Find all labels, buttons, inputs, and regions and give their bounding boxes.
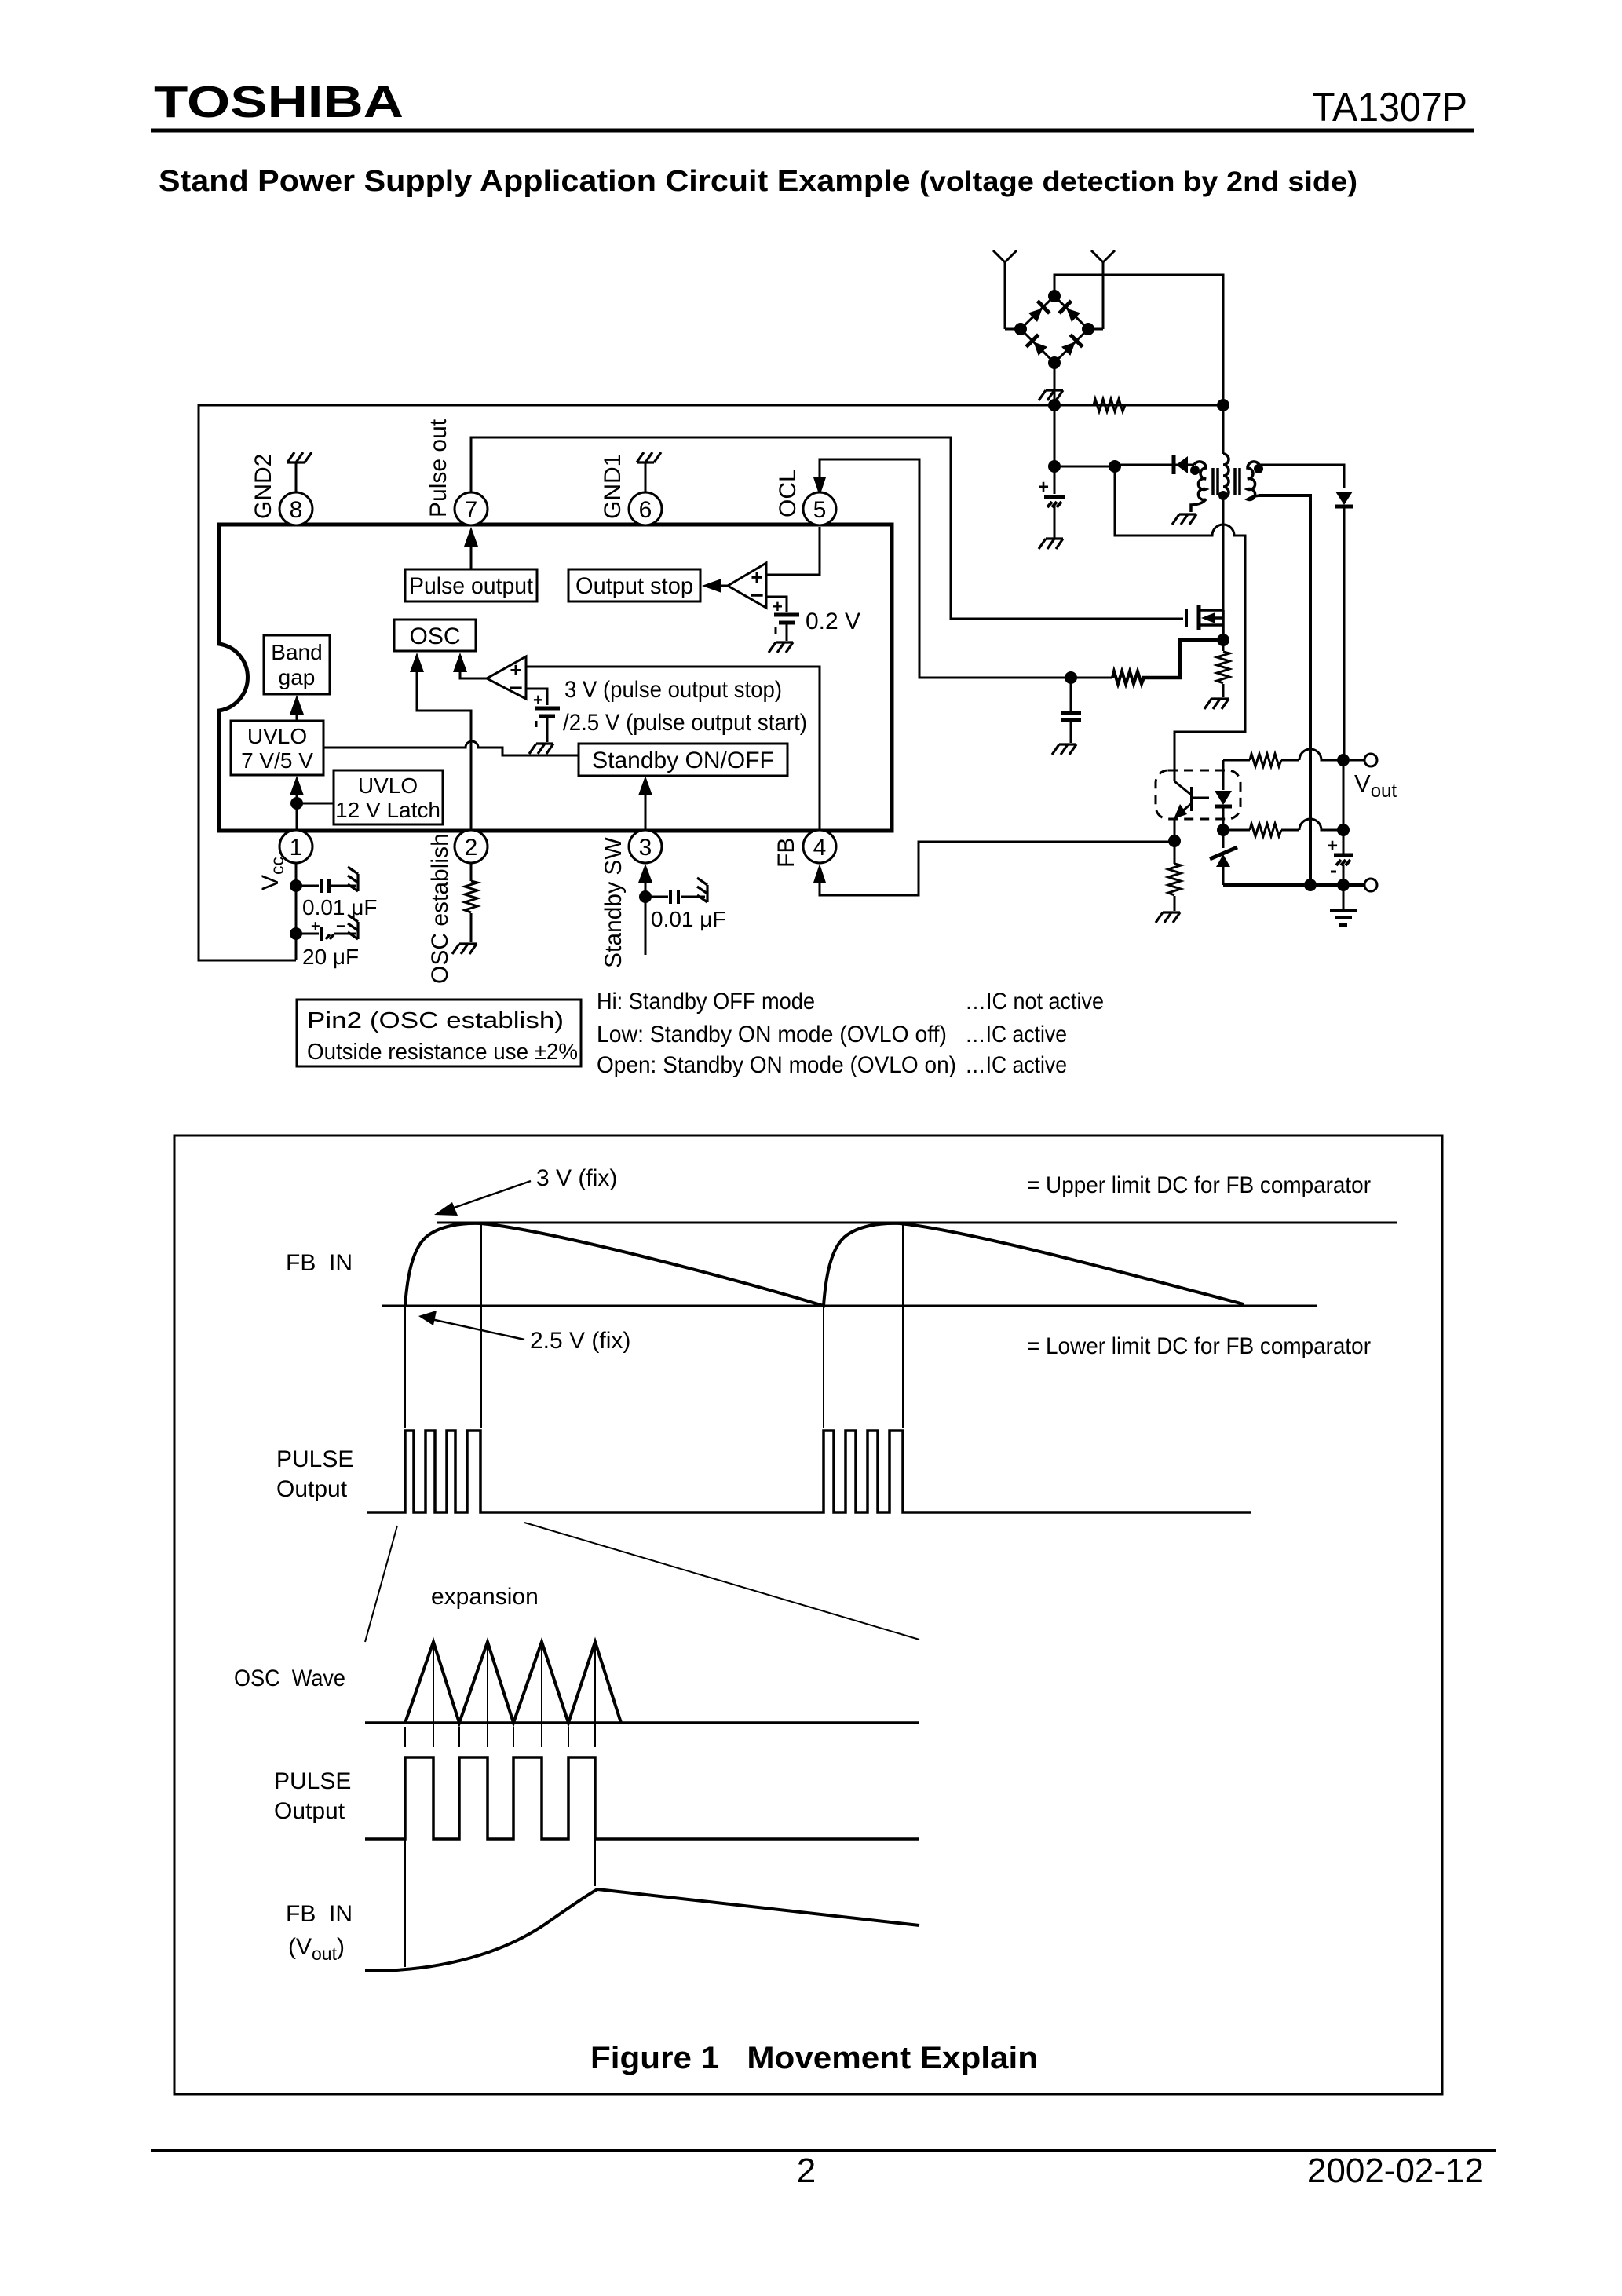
svg-text:0.01 μF: 0.01 μF bbox=[651, 907, 726, 931]
svg-text:Low: Standby ON mode (OVLO off: Low: Standby ON mode (OVLO off) bbox=[597, 1022, 947, 1047]
node OCL filter bbox=[1065, 671, 1077, 684]
wire pin 1 to UVLO node bbox=[296, 803, 298, 831]
svg-text:12 V Latch: 12 V Latch bbox=[335, 798, 440, 822]
arrow into pin 5 bbox=[813, 477, 826, 496]
ground (0.2 V source) bbox=[769, 642, 793, 653]
wire primary bottom to MOSFET drain bbox=[1222, 498, 1225, 610]
ground (pin 8 GND2) bbox=[287, 452, 312, 492]
wire output diode to Vout node bbox=[1343, 506, 1346, 760]
note box Pin2 bbox=[297, 1000, 581, 1066]
svg-text:= Upper limit DC for FB compar: = Upper limit DC for FB comparator bbox=[1027, 1172, 1371, 1198]
wire UVLO to Standby ON/OFF with hop bbox=[323, 741, 579, 755]
optocoupler PC1 dashed outline bbox=[1156, 770, 1240, 819]
wire bridge minus down to ground rail bbox=[1054, 363, 1056, 405]
transformer T1 core bbox=[1213, 468, 1240, 495]
svg-text:FB IN: FB IN bbox=[286, 1250, 353, 1276]
wire gate drive from pin 7 bbox=[471, 437, 1183, 619]
node standby cap bbox=[639, 890, 652, 903]
FB IN (Vout) waveform bbox=[365, 1889, 919, 1970]
pin 5 circle bbox=[803, 492, 836, 525]
expansion pointer right bbox=[524, 1523, 919, 1640]
pin 4 circle bbox=[803, 830, 836, 863]
svg-text:Pulse out: Pulse out bbox=[426, 419, 451, 517]
resistor R7 (lower output) bbox=[1229, 824, 1299, 836]
svg-text:2: 2 bbox=[797, 2152, 816, 2190]
optocoupler PC1 LED bbox=[1215, 760, 1232, 830]
ground (3 V source) bbox=[529, 744, 553, 754]
svg-text:FB IN: FB IN bbox=[286, 1901, 353, 1927]
svg-text:Standby ON/OFF: Standby ON/OFF bbox=[592, 748, 774, 773]
svg-text:2.5 V (fix): 2.5 V (fix) bbox=[530, 1328, 630, 1354]
node bulk cap top bbox=[1048, 460, 1061, 473]
svg-text:TOSHIBA: TOSHIBA bbox=[154, 77, 404, 127]
node rail / primary column bbox=[1217, 399, 1229, 411]
PULSE waveform 2 bbox=[365, 1757, 919, 1839]
box Standby ON/OFF bbox=[579, 744, 787, 776]
wire AC L to bridge left node bbox=[1005, 328, 1017, 331]
node MOSFET source bbox=[1217, 634, 1229, 646]
svg-text:4: 4 bbox=[813, 835, 827, 861]
svg-text:2: 2 bbox=[465, 835, 478, 861]
earth ground (output) bbox=[1330, 885, 1357, 925]
svg-text:8: 8 bbox=[290, 497, 303, 523]
arrow node to UVLO bbox=[290, 776, 304, 803]
arrow into pin 3 bbox=[638, 864, 652, 883]
guide line peak 1 bbox=[480, 1224, 482, 1428]
diode D2 (secondary rectifier) bbox=[1335, 492, 1353, 506]
label PULSE Output 2 bbox=[274, 1768, 351, 1824]
box UVLO 7 V/5 V bbox=[231, 721, 323, 775]
wire secondary bottom return bbox=[1259, 495, 1310, 885]
wire rail down to bulk cap bbox=[1054, 405, 1056, 466]
svg-text:GND1: GND1 bbox=[600, 454, 626, 519]
node Vout bbox=[1337, 754, 1350, 766]
guide last pulse to FB peak bbox=[594, 1839, 596, 1886]
OSC peak guide 1 bbox=[433, 1642, 434, 1747]
svg-text:Outside resistance use ±2%: Outside resistance use ±2% bbox=[307, 1040, 578, 1065]
svg-text:OSC Wave: OSC Wave bbox=[234, 1665, 345, 1691]
pin 6 circle bbox=[629, 492, 662, 525]
wire rail to primary column bbox=[1125, 404, 1223, 407]
svg-text:expansion: expansion bbox=[431, 1584, 539, 1610]
node bridge left bbox=[1014, 323, 1027, 335]
label 2.5 V (fix) with arrow bbox=[418, 1311, 630, 1354]
svg-text:−: − bbox=[509, 675, 523, 701]
node return / secondary bbox=[1304, 879, 1317, 891]
AC input terminal N bbox=[1091, 250, 1115, 329]
AC input terminal L bbox=[993, 250, 1017, 329]
svg-text:Hi: Standby OFF mode: Hi: Standby OFF mode bbox=[597, 989, 815, 1015]
wire pin 2 to OSC bbox=[410, 653, 471, 831]
ground (source resistor) bbox=[1204, 699, 1229, 709]
svg-text:= Lower limit DC for FB compar: = Lower limit DC for FB comparator bbox=[1027, 1333, 1371, 1359]
wire node to UVLO 12V Latch bbox=[297, 803, 334, 805]
bridge diode bottom-right bbox=[1060, 335, 1083, 357]
terminal output return bbox=[1364, 879, 1377, 891]
svg-text:gap: gap bbox=[279, 665, 316, 689]
OSC peak guide 4 bbox=[594, 1642, 596, 1747]
wire output return rail bbox=[1223, 883, 1364, 887]
svg-text:OSC: OSC bbox=[409, 623, 460, 649]
svg-text:3 V (pulse output stop): 3 V (pulse output stop) bbox=[564, 677, 782, 703]
expansion pointer left bbox=[365, 1526, 397, 1642]
svg-text:Band: Band bbox=[271, 640, 322, 664]
svg-text:Pulse output: Pulse output bbox=[409, 573, 534, 599]
svg-text:Output: Output bbox=[274, 1798, 345, 1824]
node Vcc internal bbox=[290, 797, 303, 810]
svg-text:3: 3 bbox=[639, 835, 652, 861]
box UVLO 12 V Latch bbox=[334, 770, 443, 824]
wire OCL sense (bold) bbox=[1142, 640, 1223, 678]
voltage source 3 V / 2.5 V bbox=[533, 690, 560, 742]
OSC baseline bbox=[365, 1721, 919, 1724]
ground (aux winding) bbox=[1172, 514, 1196, 525]
node primary bottom bbox=[1218, 491, 1228, 500]
label 3 V (fix) with arrow bbox=[434, 1165, 617, 1216]
bridge diode bottom-left bbox=[1026, 335, 1049, 357]
svg-text:Output stop: Output stop bbox=[575, 573, 693, 599]
svg-text:+: + bbox=[311, 918, 320, 935]
transistor Q1 (MOSFET) bbox=[1186, 605, 1223, 630]
wire comparator B output to OSC bbox=[453, 653, 487, 678]
node return / cap bbox=[1337, 879, 1350, 891]
svg-text:7 V/5 V: 7 V/5 V bbox=[241, 748, 313, 773]
OSC peak guide 3 bbox=[541, 1642, 542, 1747]
svg-text:6: 6 bbox=[639, 497, 652, 523]
node bridge top bbox=[1048, 290, 1061, 302]
OSC valley ticks bbox=[405, 1727, 568, 1747]
svg-text:OCL: OCL bbox=[775, 469, 801, 517]
guide first pulse to FB bbox=[404, 1839, 406, 1967]
svg-text:UVLO: UVLO bbox=[247, 724, 307, 748]
wire comparator B plus input to pin 4 bbox=[526, 667, 820, 831]
voltage source 0.2 V bbox=[773, 597, 799, 641]
wire Vcc startup loop (left boundary and top rail) bbox=[199, 405, 1223, 960]
figure frame bbox=[174, 1135, 1442, 2094]
node rail junction bbox=[1048, 399, 1061, 411]
node aux rail bbox=[1109, 460, 1121, 473]
capacitor C6 (output electrolytic) bbox=[1327, 760, 1353, 885]
box OSC bbox=[394, 620, 476, 651]
wire bridge plus to transformer primary top bbox=[1054, 275, 1223, 454]
resistor R4 (source to ground) bbox=[1217, 640, 1229, 697]
transformer T1 aux winding bbox=[1191, 462, 1206, 512]
svg-text:…IC active: …IC active bbox=[965, 1022, 1067, 1047]
svg-text:0.2 V: 0.2 V bbox=[806, 609, 860, 634]
svg-text:TA1307P: TA1307P bbox=[1312, 85, 1467, 130]
box Band gap bbox=[264, 635, 330, 694]
transformer T1 secondary winding bbox=[1248, 462, 1259, 500]
header rule bbox=[151, 129, 1474, 133]
svg-text:2002-02-12: 2002-02-12 bbox=[1307, 2152, 1484, 2190]
capacitor C1 (bulk electrolytic) bbox=[1038, 466, 1065, 538]
svg-text:+: + bbox=[1038, 477, 1049, 498]
wire secondary top to output diode bbox=[1259, 465, 1344, 488]
svg-text:−: − bbox=[750, 583, 764, 609]
arrow UVLO to Band gap bbox=[290, 695, 304, 721]
PULSE waveform 1 bbox=[367, 1431, 1251, 1512]
svg-text:GND2: GND2 bbox=[250, 454, 276, 519]
wire OCL to pin 5 bbox=[820, 459, 1071, 678]
node bridge bottom bbox=[1048, 356, 1061, 369]
guide line start 2 bbox=[823, 1306, 824, 1428]
wire pin 1 external bbox=[295, 863, 298, 960]
wire hop over secondary return (lower) bbox=[1299, 819, 1338, 830]
polarity dot aux bbox=[1190, 466, 1200, 475]
wire standby switch stub bbox=[645, 868, 647, 955]
capacitor C4 (0.01 uF standby) bbox=[645, 890, 705, 904]
node output mid bbox=[1337, 824, 1350, 836]
node Vcc cap 1 bbox=[290, 879, 302, 892]
ground (C2) bbox=[348, 867, 358, 891]
footer rule bbox=[151, 2149, 1496, 2152]
terminal Vout bbox=[1350, 754, 1377, 766]
pin 2 circle bbox=[455, 830, 488, 863]
svg-text:Standby SW: Standby SW bbox=[601, 837, 627, 968]
svg-text:PULSE: PULSE bbox=[276, 1446, 353, 1472]
box Output stop bbox=[568, 569, 700, 601]
FB IN waveform bbox=[405, 1223, 1244, 1306]
svg-text:…IC active: …IC active bbox=[965, 1052, 1067, 1078]
node Vcc cap 2 bbox=[290, 927, 302, 940]
diode bridge DB1 frame bbox=[1021, 296, 1088, 363]
guide line start 1 bbox=[404, 1306, 406, 1428]
polarity dot secondary bbox=[1254, 464, 1263, 473]
transformer T1 primary winding bbox=[1223, 454, 1229, 498]
svg-text:UVLO: UVLO bbox=[358, 773, 418, 798]
OSC peak guide 2 bbox=[487, 1642, 488, 1747]
wire sense to filter node bbox=[1071, 677, 1112, 679]
node bridge right bbox=[1082, 323, 1094, 335]
op-amp U1 (OCL comparator) bbox=[728, 563, 766, 609]
svg-text:7: 7 bbox=[465, 497, 478, 523]
bridge diode top-right bbox=[1059, 301, 1082, 324]
ground (C3) bbox=[348, 915, 358, 939]
pin 1 circle bbox=[279, 830, 312, 863]
ground (R2) bbox=[452, 944, 477, 954]
ground (primary rail) bbox=[1039, 390, 1063, 400]
node zener top bbox=[1217, 824, 1229, 836]
diode D1 (aux rectifier) bbox=[1115, 455, 1194, 474]
svg-text:Figure 1 Movement Explain: Figure 1 Movement Explain bbox=[590, 2041, 1038, 2075]
svg-text:FB: FB bbox=[773, 838, 799, 868]
OSC triangle wave bbox=[405, 1642, 621, 1723]
ground (FB resistor) bbox=[1156, 912, 1180, 923]
label FB IN (Vout) bbox=[286, 1901, 353, 1964]
guide line peak 2 bbox=[902, 1224, 904, 1428]
ground (C4) bbox=[697, 878, 707, 902]
upper limit line bbox=[437, 1222, 1397, 1224]
svg-text:0.01 μF: 0.01 μF bbox=[302, 895, 378, 919]
IC body outline with notch bbox=[219, 525, 892, 831]
resistor R1 (startup) bbox=[1094, 399, 1125, 411]
svg-text:Stand Power Supply Application: Stand Power Supply Application Circuit E… bbox=[159, 165, 1357, 198]
svg-text:Pin2 (OSC establish): Pin2 (OSC establish) bbox=[307, 1008, 564, 1033]
arrow pulse output to pin 7 bbox=[464, 527, 478, 569]
svg-text:/2.5 V (pulse output start): /2.5 V (pulse output start) bbox=[563, 710, 807, 736]
wire AC N to bridge right node bbox=[1091, 328, 1103, 331]
arrow pin 3 to Standby ON/OFF bbox=[638, 776, 652, 831]
wire aux node down and across to opto collector rail bbox=[1115, 466, 1245, 773]
wire FB from pin 4 bbox=[820, 842, 1171, 895]
svg-text:…IC not active: …IC not active bbox=[965, 989, 1104, 1015]
lower limit line bbox=[382, 1305, 1317, 1307]
wire comparator plus input to pin 5 bbox=[766, 527, 820, 575]
node opto emitter / FB divider bbox=[1168, 835, 1181, 847]
wire MOSFET source bbox=[1222, 625, 1225, 640]
capacitor C5 (OCL filter) bbox=[1061, 678, 1081, 743]
box Pulse output bbox=[405, 569, 537, 601]
capacitor C3 (20 uF electrolytic) bbox=[296, 918, 356, 941]
label PULSE Output 1 bbox=[276, 1446, 353, 1502]
svg-text:Output: Output bbox=[276, 1476, 348, 1502]
wire hop over secondary return (upper) bbox=[1299, 749, 1338, 760]
svg-text:OSC establish: OSC establish bbox=[427, 833, 453, 984]
optocoupler PC1 phototransistor bbox=[1174, 773, 1209, 841]
resistor R2 (OSC establish) bbox=[465, 863, 477, 942]
svg-text:1: 1 bbox=[290, 835, 303, 861]
ground (pin 6 GND1) bbox=[637, 452, 661, 492]
pin 8 circle bbox=[279, 492, 312, 525]
pin 7 circle bbox=[455, 492, 488, 525]
wire comparator minus input bbox=[766, 597, 787, 612]
arrow comparator to output stop box bbox=[702, 579, 728, 593]
wire node to aux node bbox=[1054, 466, 1115, 468]
ground (bulk cap) bbox=[1039, 539, 1063, 549]
resistor R6 (upper output) bbox=[1223, 754, 1299, 766]
svg-text:20 μF: 20 μF bbox=[302, 945, 359, 969]
bridge diode top-left bbox=[1027, 301, 1050, 324]
capacitor C2 (0.01 uF Vcc) bbox=[296, 879, 356, 893]
arrow into pin 4 bbox=[813, 864, 826, 883]
svg-text:5: 5 bbox=[813, 497, 827, 523]
svg-text:Open: Standby ON mode (OVLO on: Open: Standby ON mode (OVLO on) bbox=[597, 1052, 956, 1078]
op-amp U2 (FB comparator) bbox=[487, 656, 526, 701]
resistor R3 (OCL sense) bbox=[1112, 671, 1144, 684]
zener diode ZD1 bbox=[1210, 830, 1237, 885]
wire comparator B minus input bbox=[526, 689, 547, 705]
svg-text:3 V (fix): 3 V (fix) bbox=[536, 1165, 617, 1191]
pin 3 circle bbox=[629, 830, 662, 863]
svg-text:PULSE: PULSE bbox=[274, 1768, 351, 1794]
resistor R5 (FB lower) bbox=[1168, 841, 1181, 911]
ground (OCL filter) bbox=[1052, 744, 1076, 755]
